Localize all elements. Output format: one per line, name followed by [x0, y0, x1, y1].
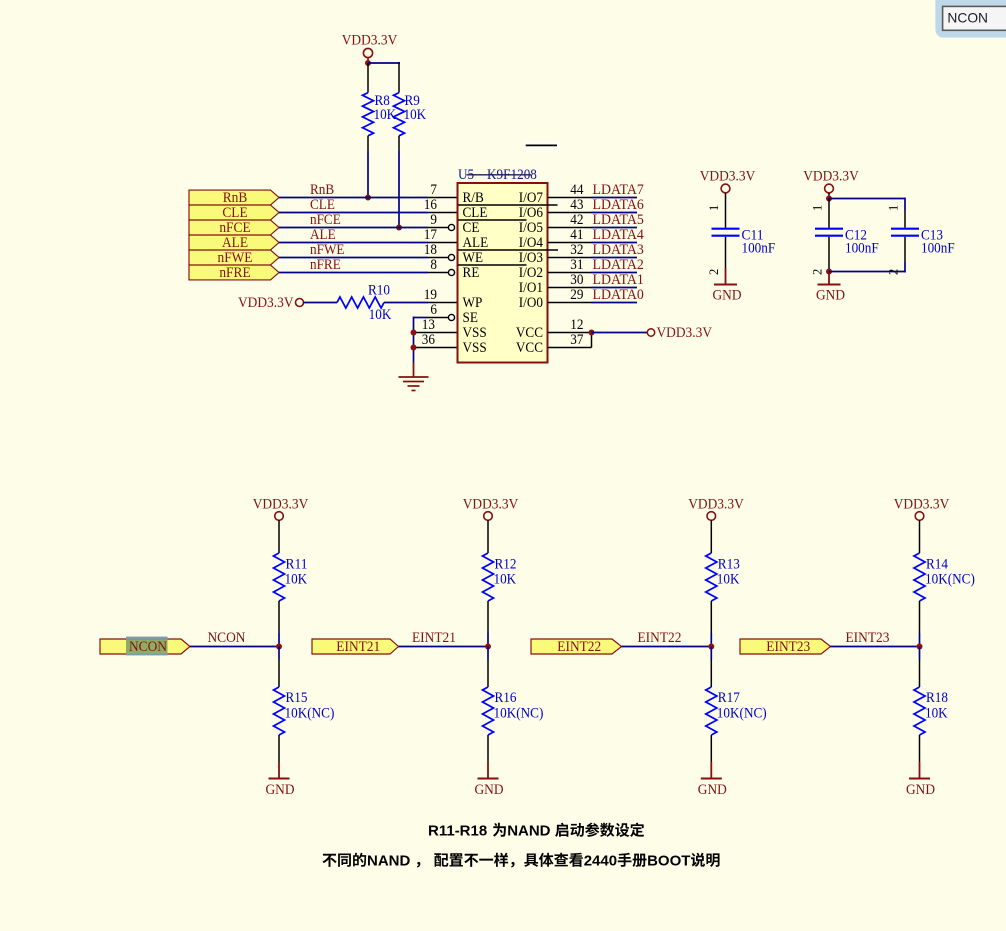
svg-text:2: 2 [707, 269, 721, 275]
svg-text:100nF: 100nF [742, 241, 776, 257]
svg-text:EINT23: EINT23 [846, 629, 890, 646]
wire nFWE to U5 [279, 257, 428, 259]
junction dot pin36 [411, 345, 417, 351]
pin 43 (U5 right) [548, 197, 591, 213]
wire fragment (floating segment above U5) [523, 141, 560, 150]
resistor R18 [914, 647, 948, 736]
svg-text:I/O2: I/O2 [519, 265, 543, 281]
wire VCC to VDD3.3V [592, 332, 648, 334]
pin 9 (U5 left) [428, 212, 455, 230]
svg-text:R18: R18 [926, 690, 948, 706]
wire LDATA4 [591, 242, 637, 244]
port EINT21 [312, 638, 399, 655]
ground GND (EINT23 column) [906, 762, 935, 798]
resistor R14 [914, 520, 975, 601]
search overlay panel (top right) [935, 0, 1006, 38]
wire R9 bottom to nFCE net [398, 136, 400, 228]
pin 32 (U5 right) [548, 242, 591, 258]
svg-text:2: 2 [887, 269, 901, 275]
svg-text:GND: GND [713, 287, 742, 304]
resistor R16 [483, 647, 544, 736]
junction dot EINT23 [917, 644, 923, 650]
svg-text:VDD3.3V: VDD3.3V [253, 496, 309, 513]
svg-text:2440: 2440 [584, 853, 617, 870]
svg-text:10K(NC): 10K(NC) [717, 706, 767, 722]
svg-text:VCC: VCC [516, 325, 543, 341]
net label LDATA4 [593, 227, 645, 243]
power VDD3.3V (R10) [238, 294, 304, 311]
svg-text:GND: GND [698, 781, 727, 798]
svg-text:18: 18 [424, 242, 437, 258]
svg-text:10K(NC): 10K(NC) [925, 572, 975, 588]
svg-text:VCC: VCC [516, 340, 543, 356]
resistor R17 [706, 647, 767, 736]
svg-text:EINT22: EINT22 [557, 638, 601, 655]
wire nFRE to U5 [279, 272, 428, 274]
pin 36 (VSS) [414, 332, 458, 348]
svg-text:32: 32 [570, 242, 583, 258]
value K9F1208 [481, 167, 537, 183]
svg-text:EINT21: EINT21 [412, 629, 456, 646]
note line 1 (R11-R18 NAND boot parameters) [428, 823, 644, 840]
svg-text:VDD3.3V: VDD3.3V [803, 167, 859, 184]
svg-text:VSS: VSS [463, 325, 487, 341]
wire SE to VSS rail [414, 317, 429, 363]
port ALE [189, 234, 279, 251]
wire VDD to R10 [304, 302, 338, 304]
ground (power ground below U5) [399, 363, 429, 391]
net label EINT22 [638, 629, 682, 646]
svg-text:VDD3.3V: VDD3.3V [688, 496, 744, 513]
wire EINT22 port to junction [622, 646, 712, 648]
wire R12 to EINT21 net [487, 601, 489, 647]
port EINT22 [531, 638, 622, 655]
svg-text:10K(NC): 10K(NC) [285, 706, 335, 722]
IC U5 K9F1208 body [458, 183, 559, 363]
power VDD3.3V (U5 VCC) [647, 324, 712, 341]
svg-text:R11-R18: R11-R18 [428, 823, 491, 840]
svg-text:R14: R14 [926, 557, 949, 573]
power VDD3.3V (top, for R8/R9) [342, 32, 398, 62]
pin 8 (U5 left) [428, 257, 455, 276]
svg-text:1: 1 [707, 205, 721, 211]
svg-text:NAND: NAND [507, 823, 555, 840]
svg-text:10K(NC): 10K(NC) [494, 706, 544, 722]
port CLE [189, 204, 279, 221]
junction dot R9/nFCE [396, 225, 402, 231]
svg-text:17: 17 [424, 227, 437, 243]
pin 7 (U5 left) [428, 182, 458, 198]
junction dot EINT22 [708, 644, 714, 650]
wire R8 bottom to RnB net [367, 136, 369, 198]
wire LDATA3 [591, 257, 637, 259]
svg-text:10K: 10K [925, 706, 948, 722]
svg-text:I/O4: I/O4 [519, 235, 544, 251]
net label nFRE [310, 257, 341, 273]
svg-text:19: 19 [424, 287, 437, 303]
wire R18 to GND [919, 735, 921, 762]
ground GND (EINT21 column) [475, 762, 504, 798]
ground GND (NCON column) [266, 762, 295, 798]
svg-text:6: 6 [430, 302, 437, 318]
net label LDATA7 [593, 182, 644, 198]
svg-text:NAND: NAND [367, 853, 410, 870]
capacitor C13 (bypass, wired to C12) [829, 198, 955, 276]
svg-text:WE: WE [463, 250, 484, 266]
svg-text:LDATA3: LDATA3 [593, 242, 644, 258]
wire LDATA1 [591, 287, 637, 289]
svg-text:GND: GND [906, 781, 935, 798]
svg-text:44: 44 [570, 182, 584, 198]
svg-text:CLE: CLE [463, 205, 488, 221]
svg-text:CE: CE [463, 220, 480, 236]
svg-text:NCON: NCON [947, 10, 988, 25]
svg-text:VDD3.3V: VDD3.3V [894, 496, 950, 513]
svg-text:ALE: ALE [463, 235, 489, 251]
ground GND (EINT22 column) [698, 762, 727, 798]
svg-text:VSS: VSS [463, 340, 487, 356]
net label LDATA3 [593, 242, 644, 258]
svg-text:100nF: 100nF [845, 241, 879, 257]
net label NCON [208, 629, 246, 646]
svg-text:I/O3: I/O3 [519, 250, 543, 266]
pin 19 (WP) [424, 287, 458, 303]
port NCON [100, 637, 190, 656]
svg-text:I/O5: I/O5 [519, 220, 543, 236]
svg-text:LDATA1: LDATA1 [593, 272, 644, 288]
junction dot NCON [276, 644, 282, 650]
net label nFCE [310, 212, 341, 228]
svg-text:VDD3.3V: VDD3.3V [463, 496, 519, 513]
wire R16 to GND [487, 735, 489, 762]
pin 42 (U5 right) [548, 212, 591, 228]
svg-text:R15: R15 [286, 690, 308, 706]
svg-text:I/O1: I/O1 [519, 280, 543, 296]
port nFRE [189, 264, 279, 281]
svg-text:RnB: RnB [310, 182, 334, 198]
svg-text:LDATA7: LDATA7 [593, 182, 644, 198]
resistor R15 [274, 647, 335, 736]
junction dot at VDD/R8/R9 branch [365, 60, 371, 66]
wire CLE to U5 [279, 212, 428, 214]
pin 16 (U5 left) [424, 197, 458, 213]
net label EINT21 [412, 629, 456, 646]
svg-text:100nF: 100nF [921, 241, 955, 257]
svg-text:GND: GND [475, 781, 504, 798]
svg-text:10K: 10K [285, 572, 308, 588]
svg-text:10K: 10K [494, 572, 517, 588]
pin 44 (U5 right) [548, 182, 591, 198]
wire R15 to GND [278, 735, 280, 762]
wire VDD branch to R9 top [368, 62, 400, 93]
power VDD3.3V (EINT21 column) [463, 496, 519, 521]
wire R17 to GND [710, 735, 712, 762]
wire RnB to U5 [279, 197, 428, 199]
resistor R10 [337, 282, 392, 323]
wire EINT23 port to junction [831, 646, 920, 648]
junction dot R8/RnB [365, 195, 371, 201]
svg-text:2: 2 [811, 269, 825, 275]
svg-text:VDD3.3V: VDD3.3V [657, 324, 713, 341]
junction dot pin13 [411, 330, 417, 336]
svg-text:SE: SE [463, 310, 478, 326]
svg-text:R/B: R/B [463, 190, 485, 206]
pin 6 (SE) [428, 302, 455, 321]
wire LDATA6 [591, 212, 637, 214]
note line 2 (NAND config note) [322, 853, 719, 870]
svg-text:1: 1 [887, 205, 901, 211]
pin 30 (U5 right) [548, 272, 591, 288]
svg-text:13: 13 [422, 317, 435, 333]
svg-text:10K: 10K [717, 572, 740, 588]
wire LDATA2 [591, 272, 637, 274]
svg-text:EINT23: EINT23 [766, 638, 810, 655]
pin 18 (U5 left) [424, 242, 455, 261]
capacitor C12 (with VDD3.3V and GND) [803, 167, 878, 303]
svg-text:R10: R10 [368, 282, 390, 298]
pin 13 (VSS) [414, 317, 458, 333]
svg-text:LDATA4: LDATA4 [593, 227, 645, 243]
svg-text:BOOT: BOOT [647, 853, 690, 870]
port RnB [189, 189, 279, 206]
svg-text:ALE: ALE [310, 227, 336, 243]
svg-text:R12: R12 [495, 557, 517, 573]
svg-text:42: 42 [570, 212, 583, 228]
svg-text:LDATA5: LDATA5 [593, 212, 644, 228]
port nFCE [189, 219, 279, 236]
svg-text:NCON: NCON [129, 638, 167, 655]
svg-text:LDATA6: LDATA6 [593, 197, 644, 213]
svg-text:VDD3.3V: VDD3.3V [342, 32, 398, 49]
svg-text:GND: GND [816, 287, 845, 304]
junction dot EINT21 [485, 644, 491, 650]
power VDD3.3V (EINT22 column) [688, 496, 744, 521]
svg-text:43: 43 [570, 197, 583, 213]
capacitor C11 (with VDD3.3V and GND) [700, 167, 775, 303]
svg-text:GND: GND [266, 781, 295, 798]
svg-text:nFCE: nFCE [310, 212, 341, 228]
resistor R9 [394, 93, 427, 136]
svg-text:LDATA0: LDATA0 [593, 287, 644, 303]
port nFWE [189, 249, 279, 266]
net label RnB [310, 182, 334, 198]
net label LDATA6 [593, 197, 644, 213]
svg-text:37: 37 [570, 332, 583, 348]
svg-text:WP: WP [463, 295, 483, 311]
svg-text:9: 9 [430, 212, 437, 228]
resistor R13 [706, 520, 740, 601]
wire LDATA5 [591, 227, 637, 229]
pin 41 (U5 right) [548, 227, 591, 243]
wire ALE to U5 [279, 242, 428, 244]
power VDD3.3V (EINT23 column) [894, 496, 950, 521]
port EINT23 [740, 638, 831, 655]
pin 12 (VCC) [548, 317, 592, 333]
svg-text:LDATA2: LDATA2 [593, 257, 644, 273]
svg-text:RE: RE [463, 265, 480, 281]
junction dot VCC [589, 330, 595, 336]
pin 29 (U5 right) [548, 287, 591, 303]
net label nFWE [310, 242, 345, 258]
wire R10 to WP pin [384, 302, 428, 304]
svg-text:1: 1 [811, 205, 825, 211]
svg-text:nFRE: nFRE [310, 257, 341, 273]
svg-text:I/O6: I/O6 [519, 205, 543, 221]
svg-text:EINT22: EINT22 [638, 629, 682, 646]
svg-text:30: 30 [570, 272, 583, 288]
svg-text:8: 8 [430, 257, 437, 273]
wire NCON port to junction [190, 646, 279, 648]
svg-text:12: 12 [570, 317, 583, 333]
resistor R12 [483, 520, 517, 601]
wire R14 to EINT23 net [919, 601, 921, 647]
designator U5 [458, 167, 481, 183]
svg-text:VDD3.3V: VDD3.3V [238, 294, 294, 311]
net label LDATA5 [593, 212, 644, 228]
svg-text:EINT21: EINT21 [336, 638, 380, 655]
svg-text:7: 7 [430, 182, 437, 198]
svg-text:NCON: NCON [208, 629, 246, 646]
power VDD3.3V (NCON column) [253, 496, 309, 521]
wire nFCE to U5 [279, 227, 428, 229]
net label LDATA0 [593, 287, 644, 303]
svg-text:R17: R17 [718, 690, 740, 706]
wire EINT21 port to junction [399, 646, 489, 648]
net label CLE [310, 197, 335, 213]
svg-text:R13: R13 [718, 557, 740, 573]
net label ALE [310, 227, 336, 243]
pin 17 (U5 left) [424, 227, 458, 243]
resistor R8 [363, 63, 397, 136]
svg-text:31: 31 [570, 257, 583, 273]
wire R13 to EINT22 net [710, 601, 712, 647]
svg-text:VDD3.3V: VDD3.3V [700, 167, 756, 184]
svg-text:16: 16 [424, 197, 437, 213]
svg-text:41: 41 [570, 227, 583, 243]
svg-text:I/O0: I/O0 [519, 295, 543, 311]
svg-text:R16: R16 [495, 690, 517, 706]
resistor R11 [274, 520, 308, 601]
wire LDATA0 [591, 302, 637, 304]
net label LDATA1 [593, 272, 644, 288]
svg-text:CLE: CLE [310, 197, 335, 213]
svg-text:nFRE: nFRE [219, 264, 250, 281]
svg-text:10K: 10K [369, 307, 392, 323]
svg-text:10K: 10K [374, 107, 397, 123]
svg-text:I/O7: I/O7 [519, 190, 543, 206]
net label LDATA2 [593, 257, 644, 273]
net label EINT23 [846, 629, 890, 646]
wire R11 to NCON net [278, 601, 280, 647]
svg-text:29: 29 [570, 287, 583, 303]
pin 37 (VCC) [548, 332, 592, 348]
svg-text:nFWE: nFWE [310, 242, 345, 258]
svg-text:R11: R11 [286, 557, 308, 573]
svg-text:10K: 10K [404, 107, 427, 123]
pin 31 (U5 right) [548, 257, 591, 273]
wire LDATA7 [591, 197, 637, 199]
svg-text:36: 36 [422, 332, 435, 348]
